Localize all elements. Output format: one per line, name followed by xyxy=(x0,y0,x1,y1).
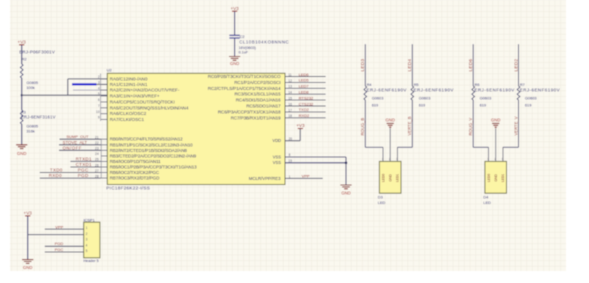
svg-text:RA2/C2IN+/AN2/DACOUT/VREF-: RA2/C2IN+/AN2/DACOUT/VREF- xyxy=(110,88,180,93)
svg-text:G0603: G0603 xyxy=(419,95,431,100)
svg-text:619: 619 xyxy=(419,103,426,108)
svg-text:LED: LED xyxy=(483,200,491,205)
svg-text:619: 619 xyxy=(480,103,487,108)
svg-text:LED8: LED8 xyxy=(299,90,310,95)
svg-text:GND: GND xyxy=(341,190,350,195)
LED D4 body xyxy=(485,161,507,193)
wire +V3 down to ground ICSP xyxy=(27,216,29,259)
svg-text:R7: R7 xyxy=(520,83,525,87)
svg-text:GND: GND xyxy=(17,151,26,156)
svg-text:TXD2: TXD2 xyxy=(299,107,310,112)
svg-text:PGC: PGC xyxy=(55,247,64,252)
svg-text:24: 24 xyxy=(95,152,99,156)
svg-text:VPP: VPP xyxy=(302,174,310,179)
svg-text:CL10B104KO8NNNC: CL10B104KO8NNNC xyxy=(239,40,289,45)
svg-text:RA6/CLKO/OSC2: RA6/CLKO/OSC2 xyxy=(110,111,147,116)
resistor R7 xyxy=(518,44,520,86)
svg-text:RC5/SDO1/AN17: RC5/SDO1/AN17 xyxy=(246,104,281,109)
wire +V3 to C2 xyxy=(234,11,236,35)
vertical pin column line left top xyxy=(100,74,102,122)
svg-text:LED1: LED1 xyxy=(501,174,505,182)
resistor R5 xyxy=(411,44,413,86)
svg-text:TXD0: TXD0 xyxy=(50,168,63,173)
svg-text:RC3/SCK1/SCL1/AN15: RC3/SCK1/SCL1/AN15 xyxy=(234,92,281,97)
wire junction to RA3 pin5 xyxy=(22,94,108,96)
svg-text:3: 3 xyxy=(86,238,88,242)
wire R2 to junction xyxy=(21,78,23,95)
svg-text:G0603: G0603 xyxy=(372,95,384,100)
svg-text:ICSP1: ICSP1 xyxy=(84,218,95,223)
svg-text:11: 11 xyxy=(288,73,292,77)
svg-text:R4: R4 xyxy=(367,83,372,87)
svg-text:G0603: G0603 xyxy=(480,95,492,100)
svg-text:3: 3 xyxy=(98,81,100,85)
svg-text:VERTE_B: VERTE_B xyxy=(407,116,412,135)
svg-text:LED5: LED5 xyxy=(299,78,310,83)
svg-text:0.1uF: 0.1uF xyxy=(239,51,249,55)
svg-text:RC2/CTPLS/P1A/CCP1/T5CKI/AN14: RC2/CTPLS/P1A/CCP1/T5CKI/AN14 xyxy=(208,86,281,91)
svg-text:VERTE_V: VERTE_V xyxy=(513,116,518,135)
svg-text:C2: C2 xyxy=(240,34,245,39)
wire +V3 branch to ICSP pin2 xyxy=(28,234,84,236)
svg-text:100k: 100k xyxy=(26,85,34,90)
svg-text:R6: R6 xyxy=(475,83,480,87)
vertical pin column line left bottom xyxy=(100,139,102,179)
svg-text:VSS: VSS xyxy=(273,160,281,165)
svg-text:RC1/P2A/CCP2/SOSCI: RC1/P2A/CCP2/SOSCI xyxy=(234,80,280,85)
svg-text:15: 15 xyxy=(288,97,292,101)
ground VSS xyxy=(340,185,351,189)
svg-text:PGD: PGD xyxy=(78,173,89,178)
svg-text:619: 619 xyxy=(525,103,532,108)
svg-text:VPP: VPP xyxy=(55,224,63,229)
node VSS junction xyxy=(345,162,348,165)
svg-text:RB1/INT1/P1C/SCK2/SCL2/C12IN3-: RB1/INT1/P1C/SCK2/SCL2/C12IN3-/AN10 xyxy=(110,142,194,147)
svg-text:RB6/IOC2/TX2/CK2/PGC: RB6/IOC2/TX2/CK2/PGC xyxy=(110,170,160,175)
svg-text:VSS: VSS xyxy=(273,154,281,159)
node junction xyxy=(21,94,23,96)
svg-text:14: 14 xyxy=(288,91,292,95)
svg-text:4: 4 xyxy=(98,86,100,90)
svg-text:CTXD1: CTXD1 xyxy=(76,162,92,167)
wire VSS pins to ground xyxy=(285,156,346,158)
svg-text:+V3: +V3 xyxy=(296,123,305,128)
IC U2 PIC18F26K22 body xyxy=(107,73,285,184)
svg-text:16: 16 xyxy=(288,102,292,106)
svg-text:16V(0603): 16V(0603) xyxy=(239,46,256,50)
svg-text:G0603: G0603 xyxy=(525,95,537,100)
svg-text:RTS232: RTS232 xyxy=(299,95,314,100)
wire R3 to ground xyxy=(21,124,23,145)
wire right to LED pin3 xyxy=(503,146,519,148)
connector ICSP1 body xyxy=(84,222,100,258)
wire left to LED pin1 xyxy=(473,146,488,148)
ground top middle xyxy=(229,57,240,61)
svg-text:RB0/INT0/CCP4/FLT0/SRI/SS2/AN1: RB0/INT0/CCP4/FLT0/SRI/SS2/AN12 xyxy=(110,137,184,142)
svg-text:2: 2 xyxy=(86,232,88,236)
svg-text:CTS232: CTS232 xyxy=(299,101,314,106)
ground ICSP xyxy=(22,260,33,264)
svg-text:619: 619 xyxy=(372,103,379,108)
wire left to LED pin1 xyxy=(365,146,383,148)
svg-text:18: 18 xyxy=(288,114,292,118)
svg-text:5: 5 xyxy=(98,92,100,96)
svg-text:ERJ-P06F3001V: ERJ-P06F3001V xyxy=(19,49,55,54)
svg-text:ROUG_B: ROUG_B xyxy=(360,118,365,136)
svg-text:RC0/P2B/T3CKI/T3G/T1CKI/SOSCO: RC0/P2B/T3CKI/T3G/T1CKI/SOSCO xyxy=(208,74,281,79)
svg-text:RB4/IOC0/P1D/T5G/AN11: RB4/IOC0/P1D/T5G/AN11 xyxy=(110,159,162,164)
svg-text:2: 2 xyxy=(98,75,100,79)
svg-text:PIC18F26K22-I/SS: PIC18F26K22-I/SS xyxy=(106,186,150,191)
svg-text:RA0/C12IN0-/AN0: RA0/C12IN0-/AN0 xyxy=(110,76,148,81)
svg-text:GND: GND xyxy=(389,174,393,182)
svg-text:RA1/C12IN1-/AN1: RA1/C12IN1-/AN1 xyxy=(110,82,148,87)
svg-text:RXD0: RXD0 xyxy=(49,173,62,178)
svg-text:LED0: LED0 xyxy=(487,174,491,182)
svg-text:RC7/P3B/RX1/DT1/AN19: RC7/P3B/RX1/DT1/AN19 xyxy=(231,115,282,120)
svg-text:LED7: LED7 xyxy=(299,84,310,89)
svg-text:RB3/CTED2/P2A/CCP2/SDO2/C12IN2: RB3/CTED2/P2A/CCP2/SDO2/C12IN2-/AN9 xyxy=(110,153,197,158)
svg-text:LED1: LED1 xyxy=(396,174,400,182)
wire RA2 pin4 xyxy=(73,89,107,91)
LED D3 body xyxy=(379,161,401,193)
capacitor C2 xyxy=(229,35,239,38)
wire C2 to ground xyxy=(234,39,236,57)
svg-text:LED: LED xyxy=(378,200,386,205)
svg-text:13: 13 xyxy=(288,85,292,89)
svg-text:RA7/CLKI/OSC1: RA7/CLKI/OSC1 xyxy=(110,117,145,122)
svg-text:RA5/C2OUT/SRNQ/SS1/HLVDIN/AN4: RA5/C2OUT/SRNQ/SS1/HLVDIN/AN4 xyxy=(110,105,189,110)
svg-text:ERJ-6ENF6190V: ERJ-6ENF6190V xyxy=(414,88,454,93)
svg-text:ERJ-6ENF6190V: ERJ-6ENF6190V xyxy=(474,88,514,93)
svg-text:R2: R2 xyxy=(22,57,27,61)
resistor R4 xyxy=(364,44,366,86)
svg-text:Header 5: Header 5 xyxy=(84,259,99,263)
svg-text:RA4/CCP5/C1OUT/SRQ/T0CKI: RA4/CCP5/C1OUT/SRQ/T0CKI xyxy=(110,99,175,104)
svg-text:STOVE_ALT: STOVE_ALT xyxy=(63,140,88,145)
svg-text:+V3: +V3 xyxy=(24,211,33,216)
svg-text:RB5/IOC1/P2B/P3A/CCP3/T3CKI/T1: RB5/IOC1/P2B/P3A/CCP3/T3CKI/T1G/AN13 xyxy=(110,165,197,170)
resistor R6 xyxy=(472,44,474,86)
svg-text:4: 4 xyxy=(86,243,88,247)
svg-text:9: 9 xyxy=(98,116,100,120)
svg-text:D3: D3 xyxy=(378,195,383,200)
svg-text:RXD2: RXD2 xyxy=(299,113,310,118)
svg-text:5: 5 xyxy=(86,249,88,253)
wire power to R2 xyxy=(21,45,23,64)
wire RA1 highlighted blue xyxy=(72,83,97,85)
svg-text:+V3: +V3 xyxy=(18,40,27,45)
svg-text:GND: GND xyxy=(491,118,500,123)
svg-text:RC6/P3A/CCP3/TX1/CK1/AN18: RC6/P3A/CCP3/TX1/CK1/AN18 xyxy=(218,109,281,114)
svg-text:1: 1 xyxy=(86,226,88,230)
wire branch up RA0 xyxy=(67,79,69,95)
svg-text:SUMP_OUT: SUMP_OUT xyxy=(66,134,89,139)
svg-text:MCLR/VPP/RE3: MCLR/VPP/RE3 xyxy=(249,176,281,181)
ground left divider xyxy=(16,145,27,149)
svg-text:GND: GND xyxy=(230,61,239,66)
svg-text:6: 6 xyxy=(98,98,100,102)
svg-text:ON/OFF: ON/OFF xyxy=(63,145,82,150)
wire to RA0 pin2 xyxy=(68,78,108,80)
svg-text:10: 10 xyxy=(96,110,100,114)
svg-text:GND: GND xyxy=(494,174,498,182)
svg-text:LED6: LED6 xyxy=(299,72,310,77)
svg-text:RTXD1: RTXD1 xyxy=(76,157,92,162)
svg-text:316k: 316k xyxy=(26,128,34,133)
svg-text:ERJ-6ENF6190V: ERJ-6ENF6190V xyxy=(520,88,560,93)
svg-text:GND: GND xyxy=(23,265,32,270)
svg-text:U2: U2 xyxy=(107,67,113,72)
svg-text:ERJ-6ENF3161V: ERJ-6ENF3161V xyxy=(21,114,56,119)
svg-text:+V3: +V3 xyxy=(230,6,239,11)
svg-text:12: 12 xyxy=(288,79,292,83)
svg-text:RB7/IOC3/RX2/DT2/PGD: RB7/IOC3/RX2/DT2/PGD xyxy=(110,176,160,181)
svg-text:GND: GND xyxy=(386,118,395,123)
svg-text:RC4/SDI1/SDA1/AN16: RC4/SDI1/SDA1/AN16 xyxy=(236,98,281,103)
svg-text:VDD: VDD xyxy=(272,138,281,143)
svg-text:LED0: LED0 xyxy=(381,174,385,182)
svg-text:PGD: PGD xyxy=(55,241,64,246)
svg-text:RA3/C1IN+/AN3/VREF+: RA3/C1IN+/AN3/VREF+ xyxy=(110,93,160,98)
svg-text:PGC: PGC xyxy=(78,168,89,173)
svg-text:7: 7 xyxy=(98,104,100,108)
wire right to LED pin3 xyxy=(397,146,412,148)
wire junction to R3 xyxy=(21,95,23,110)
svg-text:D4: D4 xyxy=(483,195,489,200)
svg-text:17: 17 xyxy=(288,108,292,112)
svg-text:ROUG_V: ROUG_V xyxy=(468,118,473,136)
svg-text:RB2/INT2/CTED1/P1B/SDI2/SDA2/A: RB2/INT2/CTED1/P1B/SDI2/SDA2/AN8 xyxy=(110,148,188,153)
svg-text:R5: R5 xyxy=(414,83,419,87)
svg-text:ERJ-6ENF6190V: ERJ-6ENF6190V xyxy=(367,88,407,93)
